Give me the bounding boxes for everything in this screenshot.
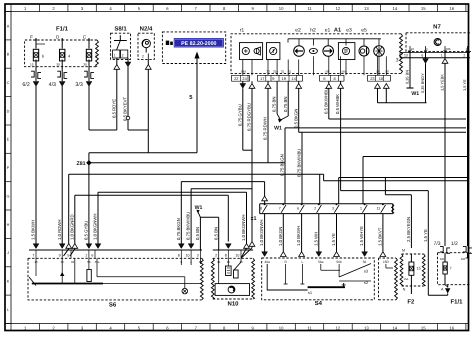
svg-text:0,5 BKGN: 0,5 BKGN [293, 109, 298, 128]
connector x1 [251, 203, 394, 222]
svg-text:15R: 15R [383, 260, 390, 264]
svg-text:e3: e3 [346, 28, 352, 34]
svg-text:6/2: 6/2 [22, 82, 29, 88]
svg-text:9: 9 [59, 253, 61, 257]
bus to x1 pin2 (1.5 WH net) [69, 174, 324, 204]
svg-text:S8/1: S8/1 [114, 26, 127, 33]
svg-text:31: 31 [281, 70, 285, 74]
svg-text:3: 3 [332, 207, 334, 211]
wire S6 pin8 0.75 BKGN (bus to x1 pin8) [176, 182, 265, 249]
wire fuse F 1.5 BKWH [31, 86, 39, 249]
svg-text:1,5 WH: 1,5 WH [313, 232, 318, 246]
wire 1.0 BKGNRD to N10 pin8 [69, 195, 231, 256]
svg-text:2: 2 [314, 207, 316, 211]
svg-text:1,5 YE: 1,5 YE [462, 79, 467, 91]
svg-text:F1/1: F1/1 [450, 299, 463, 306]
node Z81 [77, 160, 92, 167]
svg-text:0,5 BN: 0,5 BN [213, 227, 218, 240]
wire S8/1 pin2 0.5 BKYEVT [123, 58, 149, 130]
svg-text:2,5 BKYEGN: 2,5 BKYEGN [406, 217, 411, 242]
svg-text:C: C [7, 81, 10, 85]
svg-text:5: 5 [67, 253, 69, 257]
indicator lamp e5 (high beam) [374, 46, 385, 57]
svg-text:K: K [7, 280, 10, 284]
svg-text:11: 11 [307, 325, 312, 330]
wire S6 pin10 0.75 BKWHBU (bus to N10) [186, 189, 252, 249]
document reference box PE 82.20-2000 [162, 32, 225, 64]
wire trunk to N10 pin10 [241, 140, 255, 258]
relay module N10 [211, 250, 254, 308]
wire S8/1 pin1 0.5 RDYE [111, 58, 119, 130]
svg-text:0,75 BN: 0,75 BN [283, 96, 288, 112]
svg-text:1,5 YE: 1,5 YE [423, 229, 428, 242]
bus to right edge (x1 pin3 net) [339, 178, 468, 204]
wire A1 pin24 0.75 RDGYBU [247, 81, 255, 140]
bus Z81 to arrow 5 [89, 153, 197, 163]
svg-text:L: L [7, 308, 9, 312]
svg-text:G: G [7, 195, 10, 199]
fuse F2 [400, 248, 425, 306]
bus to right edge (x1 pin2 net) [324, 174, 468, 181]
svg-text:3: 3 [197, 253, 199, 257]
svg-text:1: 1 [441, 54, 443, 58]
svg-text:Z81: Z81 [77, 161, 86, 167]
bus 3 (under N7) [396, 52, 470, 63]
svg-text:2: 2 [215, 253, 217, 257]
svg-text:8: 8 [178, 253, 180, 257]
N10 internal relay [215, 258, 249, 295]
svg-text:12: 12 [336, 6, 341, 11]
wire 5 (arrow to PE box) [189, 52, 199, 153]
svg-text:1,5 BKVT: 1,5 BKVT [378, 227, 383, 246]
svg-text:0,75 BN: 0,75 BN [272, 96, 277, 112]
connector 3/3 [75, 67, 94, 88]
svg-text:2: 2 [122, 54, 124, 58]
svg-text:0,75 BKWHBU: 0,75 BKWHBU [297, 149, 302, 177]
wire x1 pin1 1.5 WHYE [359, 214, 367, 257]
svg-text:13: 13 [364, 6, 369, 11]
bus Z81 [89, 162, 285, 164]
wire 1.5 YE to F1/1 A [423, 191, 448, 296]
svg-text:7: 7 [279, 207, 281, 211]
wire A1 pin17 0.75 RDWH [263, 81, 271, 163]
svg-text:PE 82.20-2000: PE 82.20-2000 [181, 41, 216, 47]
wire 1.0 BKGNWH bus to N10 [93, 192, 247, 248]
wire fuse C to S8/1 [89, 86, 117, 130]
svg-text:58: 58 [325, 70, 329, 74]
svg-text:18: 18 [379, 76, 383, 81]
wire A1 pin14 0.5 BKGN [293, 81, 301, 132]
svg-text:13: 13 [364, 325, 369, 330]
svg-text:F1/1: F1/1 [56, 26, 69, 33]
indicator lamp e3 [359, 46, 369, 56]
svg-text:8: 8 [260, 207, 262, 211]
symbol h2 [309, 48, 317, 53]
svg-text:h2: h2 [310, 28, 316, 34]
svg-text:19: 19 [282, 76, 286, 81]
svg-text:e2: e2 [295, 28, 301, 34]
wire x1 pin11 1.5 BKVT [378, 214, 386, 257]
switch S8/1 [111, 26, 131, 60]
svg-text:1: 1 [360, 207, 362, 211]
svg-text:1,0 RDWH: 1,0 RDWH [57, 219, 62, 240]
wire Z81 to S6 pin1 0.5 GYBU [84, 163, 92, 249]
svg-text:0,75 RDWH: 0,75 RDWH [263, 117, 268, 140]
ground point A under F1/1 [441, 285, 450, 296]
control module N7 [400, 24, 471, 58]
indicator lamp e2 (turn left) [294, 46, 305, 57]
svg-text:15: 15 [421, 6, 426, 11]
wire N7 pin6 0.35 BNGY [420, 51, 428, 102]
svg-text:1: 1 [85, 253, 87, 257]
svg-text:H: H [7, 223, 10, 227]
svg-text:26: 26 [411, 47, 415, 51]
wire x1 pin7 riser [280, 128, 285, 204]
svg-text:7: 7 [450, 266, 452, 270]
svg-text:15: 15 [417, 266, 421, 270]
wire N7 pin13 0.35 BN to ground W1 [405, 51, 414, 88]
instrument cluster A1 [231, 28, 403, 74]
gauge unit (fuel) [338, 43, 355, 60]
svg-text:13: 13 [404, 54, 408, 58]
svg-text:2: 2 [463, 54, 465, 58]
internal rail A1 [288, 39, 381, 46]
svg-text:58: 58 [376, 70, 380, 74]
svg-text:58b: 58b [446, 47, 451, 51]
svg-text:1,5 BKWH: 1,5 BKWH [31, 220, 36, 240]
svg-text:0,35 BNGY: 0,35 BNGY [420, 73, 425, 93]
svg-text:F: F [30, 35, 33, 40]
svg-text:49a: 49a [265, 260, 271, 264]
fuse box F1/1 (bottom) [434, 241, 471, 306]
svg-text:6: 6 [91, 253, 93, 257]
svg-text:1,0 BKGN: 1,0 BKGN [278, 227, 283, 246]
svg-text:S4: S4 [315, 300, 323, 307]
svg-text:30: 30 [266, 70, 270, 74]
svg-text:22: 22 [234, 76, 238, 81]
indicator lamp e1 (turn right) [323, 46, 334, 57]
wire x1 pin6 riser 0.75 BKWHBU [297, 132, 302, 204]
svg-text:0,5 BKYEVT: 0,5 BKYEVT [123, 97, 128, 121]
svg-text:0,75 BKGN: 0,75 BKGN [280, 154, 285, 176]
wire S6 pin3 0.5 BN to ground W1 [195, 217, 219, 250]
bus to right edge (x1 pin7 net) [285, 127, 466, 129]
svg-text:r1: r1 [240, 28, 245, 34]
wire N7 pin1 1.5 YEBK [440, 51, 448, 246]
svg-text:1,0 BKWH: 1,0 BKWH [296, 226, 301, 246]
connector 6/2 [22, 67, 41, 88]
svg-text:9: 9 [272, 76, 274, 81]
svg-text:N7: N7 [433, 24, 441, 31]
svg-text:e1: e1 [325, 28, 331, 34]
switch S4 (right section) [379, 258, 398, 300]
svg-text:F2: F2 [407, 299, 415, 306]
svg-text:J: J [7, 251, 9, 255]
wires A1 pins9/19 0.75 BN to ground W1 [272, 81, 289, 122]
svg-text:0,75 BKGN: 0,75 BKGN [176, 218, 181, 240]
svg-text:1/2: 1/2 [451, 241, 458, 247]
svg-text:1,0 BKGNWH: 1,0 BKGNWH [241, 214, 246, 241]
svg-text:x1: x1 [251, 216, 257, 222]
S6 internal contacts [29, 258, 202, 294]
connector 7/3 [440, 247, 450, 254]
switch unit S6 [28, 250, 203, 309]
svg-text:0,5 BN: 0,5 BN [195, 227, 200, 240]
svg-text:D: D [7, 109, 10, 113]
svg-text:3/3: 3/3 [75, 82, 82, 88]
wire to fuse F2 [385, 178, 411, 195]
svg-text:e5: e5 [361, 28, 367, 34]
svg-text:0,75 RDGYBU: 0,75 RDGYBU [247, 103, 252, 131]
svg-text:N10: N10 [227, 301, 239, 308]
svg-text:0,75 GYBU: 0,75 GYBU [237, 104, 242, 126]
svg-text:A: A [7, 24, 10, 28]
svg-text:30: 30 [83, 62, 87, 66]
svg-text:B: B [7, 53, 10, 57]
svg-text:23: 23 [370, 76, 374, 81]
svg-text:1,0 BKGNWH: 1,0 BKGNWH [259, 219, 264, 246]
svg-text:0,5 BKWHBU: 0,5 BKWHBU [323, 88, 328, 114]
svg-text:S6: S6 [109, 302, 117, 309]
wire N7 pin2 1.5 YE [462, 51, 467, 246]
svg-text:56b: 56b [336, 260, 342, 264]
svg-text:L: L [302, 260, 304, 264]
svg-text:31e: 31e [273, 70, 278, 74]
wire to S6 pin5 [64, 174, 72, 256]
svg-text:6: 6 [297, 207, 299, 211]
svg-text:A1: A1 [334, 28, 341, 34]
svg-text:15A: 15A [404, 278, 409, 281]
wire A1 pin6 0.5 BKWHBU [323, 81, 466, 119]
svg-text:11: 11 [307, 6, 312, 11]
svg-text:16: 16 [449, 6, 454, 11]
svg-text:49: 49 [71, 260, 75, 264]
gauge unit r1 [240, 43, 263, 60]
svg-text:6: 6 [421, 54, 423, 58]
svg-text:M: M [402, 249, 405, 253]
svg-text:0,5 WHBK: 0,5 WHBK [335, 94, 340, 114]
fuse box F1/1 (top) [25, 26, 99, 67]
svg-text:58b: 58b [461, 258, 466, 261]
wire x1 pin7 1.0 BKGN [278, 214, 286, 257]
svg-text:E: E [7, 138, 10, 142]
svg-text:10: 10 [235, 253, 239, 257]
svg-text:8: 8 [334, 76, 336, 81]
wire x1 pin8 1.0 BKGNWH [259, 196, 267, 257]
svg-text:1,5 YE: 1,5 YE [331, 233, 336, 246]
svg-text:16: 16 [449, 325, 454, 330]
wire N2/4 pin2 [145, 59, 151, 152]
svg-text:58: 58 [466, 47, 470, 51]
connector 1/2 [463, 247, 472, 254]
bus 1.5 WHYE to right edge [363, 157, 468, 204]
wire x1 pin2 1.5 WH [313, 214, 321, 257]
wire x1 pin3 1.5 YE [331, 214, 339, 257]
svg-text:W1: W1 [195, 205, 203, 211]
wire A1 pin22 0.75 GYBU [237, 81, 252, 150]
switch S4 [262, 258, 390, 307]
svg-text:12: 12 [336, 325, 341, 330]
svg-text:N: N [403, 288, 406, 292]
S4 contacts [267, 264, 371, 295]
A1 pin stubs [232, 56, 391, 81]
svg-text:W1: W1 [411, 91, 419, 97]
svg-text:0,35 BN: 0,35 BN [405, 70, 410, 84]
svg-text:7: 7 [32, 253, 34, 257]
svg-text:6: 6 [323, 76, 325, 81]
svg-text:15: 15 [30, 62, 34, 66]
svg-text:0,5 RDYE: 0,5 RDYE [111, 99, 116, 118]
svg-text:14: 14 [392, 6, 397, 11]
svg-text:10: 10 [186, 253, 190, 257]
svg-text:14: 14 [392, 325, 397, 330]
svg-text:N2/4: N2/4 [140, 26, 153, 33]
svg-text:31: 31 [288, 70, 292, 74]
svg-text:7/3: 7/3 [434, 241, 441, 247]
ground W1 (above S6) [195, 205, 203, 217]
connector 4/3 [49, 67, 68, 88]
wire N10 pin2 0.5 BN [213, 217, 218, 250]
fuse F1/1-7 element [440, 253, 470, 285]
svg-text:56: 56 [363, 260, 367, 264]
svg-text:10: 10 [279, 6, 284, 11]
svg-text:30: 30 [56, 62, 60, 66]
wire 2.5 BKYEGN to F2 [406, 195, 411, 248]
svg-text:0,75 BKWHBU: 0,75 BKWHBU [186, 212, 191, 240]
wire A1 pin8 0.5 WHBK [335, 81, 428, 190]
svg-text:10: 10 [279, 325, 284, 330]
svg-text:4/3: 4/3 [49, 82, 56, 88]
svg-text:56a: 56a [318, 260, 324, 264]
svg-text:11: 11 [377, 207, 381, 211]
svg-text:1,0 BKGNRD: 1,0 BKGNRD [69, 214, 74, 240]
wire fuse D 1.0 RDWH [57, 86, 65, 249]
svg-text:1,5 YEBK: 1,5 YEBK [440, 74, 445, 91]
svg-text:2: 2 [142, 55, 144, 59]
bus 0.5 BKGN to right edge [299, 131, 466, 133]
svg-text:8: 8 [225, 253, 227, 257]
svg-text:3: 3 [396, 58, 399, 64]
control module N2/4 [138, 26, 154, 60]
gauge unit (left of e2) [267, 43, 280, 60]
svg-text:58b: 58b [440, 258, 445, 261]
bus A1 pins23/18 to N7 [375, 81, 427, 103]
svg-text:W1: W1 [274, 126, 282, 132]
wire x1 pin6 1.0 BKWH [296, 214, 304, 257]
svg-text:1: 1 [114, 54, 116, 58]
svg-text:1,5 WHYE: 1,5 WHYE [359, 226, 364, 246]
svg-text:15: 15 [421, 325, 426, 330]
svg-text:1,0 BKGNWH: 1,0 BKGNWH [93, 213, 98, 240]
svg-text:58d: 58d [241, 70, 246, 74]
svg-text:17: 17 [260, 76, 264, 81]
svg-text:56a: 56a [341, 70, 346, 74]
svg-text:58: 58 [385, 70, 389, 74]
svg-text:0,5 GYBU: 0,5 GYBU [84, 221, 89, 240]
